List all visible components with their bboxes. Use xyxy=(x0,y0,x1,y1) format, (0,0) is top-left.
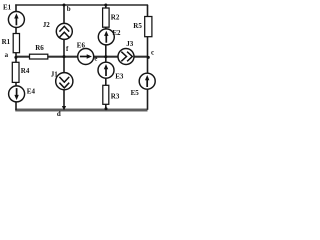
svg-text:R1: R1 xyxy=(2,38,11,46)
resistor R1 xyxy=(13,34,19,53)
resistor R3 xyxy=(103,85,109,104)
node junction dot top of R2 xyxy=(104,4,107,7)
current source J1 xyxy=(56,73,73,90)
current source J2 xyxy=(56,23,72,39)
svg-text:E6: E6 xyxy=(77,42,86,50)
arrowhead at node d (J1 branch) xyxy=(62,106,66,110)
resistor R6 xyxy=(30,54,48,59)
node b junction dot xyxy=(63,4,66,7)
wire middle rail a-f-e-c xyxy=(16,55,148,58)
voltage source E6 xyxy=(78,49,94,65)
svg-text:R6: R6 xyxy=(35,44,44,52)
resistor R4 xyxy=(12,62,19,82)
voltage source E4 xyxy=(9,86,25,102)
node a junction dot xyxy=(14,56,17,59)
resistor R5 xyxy=(145,17,152,37)
svg-text:R3: R3 xyxy=(111,92,120,100)
wire top rail b xyxy=(15,4,148,6)
node f junction dot xyxy=(63,55,66,58)
svg-text:c: c xyxy=(151,48,154,56)
svg-text:b: b xyxy=(67,5,71,13)
svg-text:J3: J3 xyxy=(126,40,134,48)
svg-text:J2: J2 xyxy=(43,21,51,29)
wire left column xyxy=(15,4,17,110)
wire center column xyxy=(63,5,65,107)
current source J3 xyxy=(118,49,134,65)
node c junction dot xyxy=(147,56,150,59)
svg-text:E5: E5 xyxy=(131,89,140,97)
resistor R2 xyxy=(103,8,110,27)
wire mid-right column xyxy=(105,5,107,110)
wire right column xyxy=(147,5,149,110)
svg-text:R5: R5 xyxy=(133,22,142,30)
wire bottom rail d xyxy=(15,108,147,111)
node e junction dot xyxy=(104,55,107,58)
junction dot bottom of R3 xyxy=(105,107,108,110)
svg-text:E4: E4 xyxy=(27,87,36,95)
svg-text:R4: R4 xyxy=(21,67,30,75)
svg-text:E3: E3 xyxy=(115,72,124,80)
svg-text:a: a xyxy=(5,51,9,59)
svg-text:R2: R2 xyxy=(111,13,120,21)
voltage source E2 xyxy=(98,29,114,45)
svg-text:d: d xyxy=(57,110,61,118)
svg-text:J1: J1 xyxy=(51,70,59,78)
svg-text:E2: E2 xyxy=(112,29,121,37)
voltage source E5 xyxy=(139,73,155,89)
voltage source E3 xyxy=(98,62,114,78)
svg-text:E1: E1 xyxy=(3,4,12,12)
voltage source E1 xyxy=(8,12,24,28)
svg-text:e: e xyxy=(94,55,97,63)
